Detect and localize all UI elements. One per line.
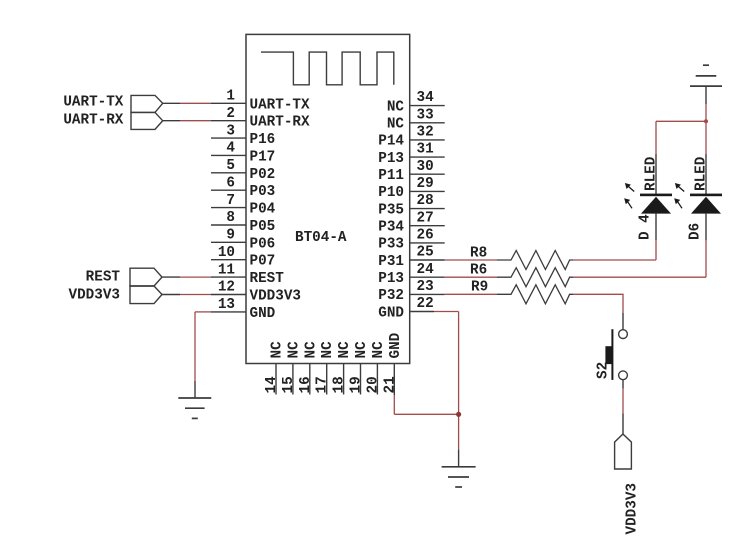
svg-text:13: 13 xyxy=(218,297,235,313)
wire net pin13 vertical xyxy=(194,312,196,381)
pin 34 (NC) right stub + number + name xyxy=(387,90,445,115)
wire net branch down to D4 xyxy=(655,121,657,154)
switch S2 top terminal xyxy=(619,330,628,339)
pin 28 (P35) right stub + number + name xyxy=(378,193,444,218)
wire net R8 to D4 xyxy=(573,259,656,261)
svg-text:NC: NC xyxy=(371,341,387,359)
pin 17 (NC) bottom stub + number + name xyxy=(315,341,337,395)
svg-text:BT04-A: BT04-A xyxy=(295,230,347,246)
svg-text:REST: REST xyxy=(86,269,121,285)
svg-text:VDD3V3: VDD3V3 xyxy=(625,483,641,534)
wire net D4 anode down xyxy=(655,240,657,260)
pin 8 (P05) left stub + number + name xyxy=(211,210,275,235)
svg-text:17: 17 xyxy=(315,376,331,393)
wire UART-RX tip to lead xyxy=(163,120,180,122)
pin 29 (P10) right stub + number + name xyxy=(378,176,444,201)
svg-text:NC: NC xyxy=(320,341,336,359)
svg-text:12: 12 xyxy=(218,280,235,296)
svg-text:UART-RX: UART-RX xyxy=(250,115,310,131)
svg-text:UART-RX: UART-RX xyxy=(63,113,123,129)
pin 23 (P32) right stub + number + name xyxy=(378,279,444,304)
svg-text:9: 9 xyxy=(226,228,235,244)
svg-text:NC: NC xyxy=(286,341,302,359)
wire net D6 anode down xyxy=(705,240,707,277)
svg-text:P31: P31 xyxy=(378,254,404,270)
svg-text:1: 1 xyxy=(226,89,235,105)
svg-text:18: 18 xyxy=(332,376,348,393)
svg-text:4: 4 xyxy=(226,141,235,157)
wire net gnd2 down to D6 xyxy=(705,104,707,154)
IC U1 BT04-A body xyxy=(246,34,410,363)
wire net branch to D4 horizontal xyxy=(656,120,706,122)
pin 21 (GND) bottom stub + number + name xyxy=(382,332,404,395)
resistor R8 body xyxy=(497,251,573,270)
LED D4 xyxy=(624,154,672,240)
svg-text:26: 26 xyxy=(417,228,434,244)
svg-text:R8: R8 xyxy=(470,246,487,262)
svg-text:19: 19 xyxy=(349,376,365,393)
svg-text:30: 30 xyxy=(417,159,434,175)
pin 32 (P14) right stub + number + name xyxy=(378,125,444,150)
pin 22 (GND) right stub + number + name xyxy=(378,296,434,321)
svg-text:7: 7 xyxy=(226,193,235,209)
svg-text:NC: NC xyxy=(270,341,286,359)
svg-text:22: 22 xyxy=(417,296,434,312)
pin 10 (P07) left stub + number + name xyxy=(211,245,275,270)
port UART-RX connector xyxy=(131,112,163,129)
svg-text:20: 20 xyxy=(365,376,381,393)
svg-text:GND: GND xyxy=(378,305,404,321)
pin 7 (P04) left stub + number + name xyxy=(211,193,276,218)
pin 31 (P13) right stub + number + name xyxy=(378,142,444,167)
svg-text:P02: P02 xyxy=(250,167,276,183)
svg-text:P34: P34 xyxy=(378,220,404,236)
wire switch bottom dark stub xyxy=(622,380,624,389)
svg-text:25: 25 xyxy=(417,245,434,261)
svg-text:VDD3V3: VDD3V3 xyxy=(69,288,120,304)
svg-text:15: 15 xyxy=(281,376,297,393)
svg-text:REST: REST xyxy=(250,271,285,287)
svg-text:5: 5 xyxy=(226,158,235,174)
svg-text:NC: NC xyxy=(303,341,319,359)
svg-text:24: 24 xyxy=(417,262,435,278)
power port VDD3V3 (bottom) body xyxy=(615,434,632,469)
junction dot pin21/pin22 net xyxy=(456,412,461,417)
pin 25 (P31) right stub + number + name xyxy=(378,245,444,270)
svg-text:RLED: RLED xyxy=(694,156,710,191)
pin 26 (P33) right stub + number + name xyxy=(378,228,444,253)
switch S2 bottom terminal xyxy=(619,371,628,380)
pin 12 (VDD3V3) left stub + number + name xyxy=(211,280,301,305)
svg-text:D 4: D 4 xyxy=(638,214,654,240)
pin 9 (P06) left stub + number + name xyxy=(211,228,275,253)
wire net pin13 horizontal xyxy=(195,311,211,313)
junction at gnd branch xyxy=(704,119,708,123)
pin 5 (P02) left stub + number + name xyxy=(211,158,275,183)
svg-text:33: 33 xyxy=(417,107,434,123)
port VDD3V3 connector xyxy=(130,286,162,304)
svg-text:14: 14 xyxy=(264,376,280,394)
pin 2 (UART-RX) left stub + number + name xyxy=(211,106,310,131)
wire REST tip to lead xyxy=(162,276,180,278)
wire switch top dark stub xyxy=(622,313,624,330)
svg-text:P35: P35 xyxy=(378,202,404,218)
pin 24 (P13) right stub + number + name xyxy=(378,262,444,287)
svg-text:UART-TX: UART-TX xyxy=(63,95,123,111)
svg-text:S2: S2 xyxy=(596,362,612,379)
svg-text:27: 27 xyxy=(417,210,434,226)
wire net switch to VDD3V3 xyxy=(622,389,624,414)
svg-text:P32: P32 xyxy=(378,288,404,304)
wire net pin2 xyxy=(180,120,211,122)
svg-text:RLED: RLED xyxy=(644,156,660,191)
port UART-TX connector xyxy=(131,95,163,112)
svg-text:P13: P13 xyxy=(378,271,404,287)
pin 20 (NC) bottom stub + number + name xyxy=(365,341,387,395)
pin 1 (UART-TX) left stub + number + name xyxy=(211,89,310,114)
wire UART-TX tip to lead xyxy=(163,102,180,104)
svg-text:UART-TX: UART-TX xyxy=(250,97,310,113)
svg-text:P06: P06 xyxy=(250,236,276,252)
wire net pin25 to R8 xyxy=(445,259,497,261)
svg-text:P33: P33 xyxy=(378,237,404,253)
svg-text:P17: P17 xyxy=(250,149,276,165)
svg-text:P07: P07 xyxy=(250,254,276,270)
svg-text:NC: NC xyxy=(387,117,405,133)
wire net pin11 xyxy=(180,276,211,278)
svg-text:31: 31 xyxy=(417,142,434,158)
pin 19 (NC) bottom stub + number + name xyxy=(349,341,371,395)
svg-text:P03: P03 xyxy=(250,184,276,200)
svg-text:10: 10 xyxy=(218,245,235,261)
pin 14 (NC) bottom stub + number + name xyxy=(264,341,286,395)
wire net pin24 to R6 xyxy=(445,276,497,278)
wire VDD3V3 dark stub xyxy=(622,413,624,433)
svg-text:P05: P05 xyxy=(250,219,276,235)
svg-text:11: 11 xyxy=(218,262,235,278)
ground GND3 (bottom right) xyxy=(442,467,476,487)
LED D6 xyxy=(674,154,722,240)
svg-text:P13: P13 xyxy=(378,151,404,167)
svg-text:NC: NC xyxy=(354,341,370,359)
svg-text:D6: D6 xyxy=(688,223,704,240)
pin 16 (NC) bottom stub + number + name xyxy=(298,341,320,395)
pin 27 (P34) right stub + number + name xyxy=(378,210,444,235)
svg-text:3: 3 xyxy=(226,123,235,139)
ground GND1 (left) xyxy=(178,398,211,418)
svg-text:P16: P16 xyxy=(250,132,276,148)
pin 3 (P16) left stub + number + name xyxy=(211,123,275,148)
svg-text:P10: P10 xyxy=(378,185,404,201)
antenna squiggle inside IC xyxy=(261,52,394,85)
resistor R9 body xyxy=(497,285,573,304)
pin 18 (NC) bottom stub + number + name xyxy=(332,341,354,395)
wire net R6 to D6 xyxy=(573,276,706,278)
svg-text:2: 2 xyxy=(226,106,235,122)
wire VDD3V3 tip to lead xyxy=(162,294,180,296)
wire net pin22 xyxy=(434,311,459,313)
svg-text:NC: NC xyxy=(387,99,405,115)
svg-text:P04: P04 xyxy=(250,202,276,218)
svg-text:6: 6 xyxy=(226,175,235,191)
pin 33 (NC) right stub + number + name xyxy=(387,107,445,132)
svg-text:34: 34 xyxy=(417,90,435,106)
pin 6 (P03) left stub + number + name xyxy=(211,175,275,200)
svg-text:29: 29 xyxy=(417,176,434,192)
pin 11 (REST) left stub + number + name xyxy=(211,262,284,287)
wire net pin1 xyxy=(180,102,211,104)
svg-text:NC: NC xyxy=(337,341,353,359)
wire net pin22 vertical xyxy=(458,312,460,450)
svg-text:P14: P14 xyxy=(378,134,404,150)
wire gnd3 dark stub xyxy=(458,450,460,467)
svg-text:GND: GND xyxy=(388,332,404,358)
svg-text:R9: R9 xyxy=(471,280,488,296)
svg-text:28: 28 xyxy=(417,193,434,209)
wire gnd2 stub xyxy=(705,86,707,104)
wire pin21 red vertical xyxy=(393,395,395,414)
wire pin13 gnd stub xyxy=(194,381,196,398)
wire net R9 to switch corner xyxy=(573,294,623,313)
switch S2 lever bar xyxy=(611,329,613,380)
svg-text:16: 16 xyxy=(298,376,314,393)
svg-text:VDD3V3: VDD3V3 xyxy=(250,289,301,305)
pin 4 (P17) left stub + number + name xyxy=(211,141,275,166)
svg-text:GND: GND xyxy=(250,306,276,322)
svg-text:23: 23 xyxy=(417,279,434,295)
switch S2 button xyxy=(605,346,612,364)
svg-text:R6: R6 xyxy=(470,263,487,279)
svg-text:21: 21 xyxy=(382,376,398,393)
wire net pin23 to R9 xyxy=(445,293,497,295)
svg-text:32: 32 xyxy=(417,125,434,141)
pin 13 (GND) left stub + number + name xyxy=(211,297,276,322)
wire net pin21 horizontal xyxy=(394,413,458,415)
resistor R6 body xyxy=(497,268,573,287)
svg-text:8: 8 xyxy=(226,210,235,226)
pin 30 (P11) right stub + number + name xyxy=(378,159,444,184)
ground GND2 (top right, inverted) xyxy=(690,65,722,86)
pin 15 (NC) bottom stub + number + name xyxy=(281,341,303,395)
wire net pin12 xyxy=(180,294,211,296)
svg-text:P11: P11 xyxy=(378,168,404,184)
port REST connector xyxy=(130,268,162,286)
